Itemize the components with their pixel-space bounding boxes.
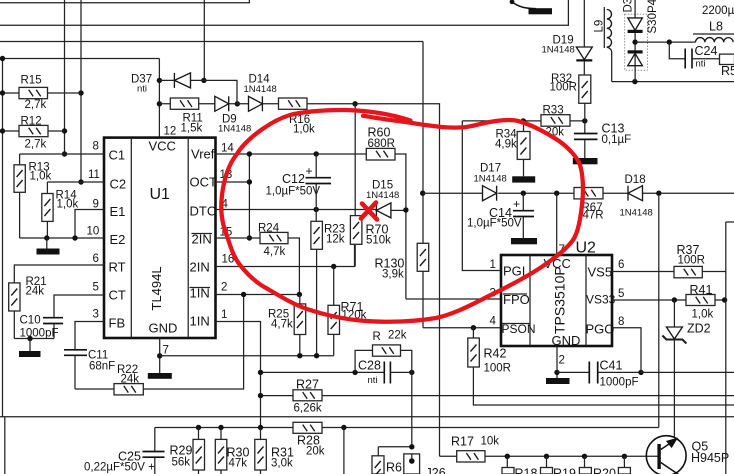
resistor R24	[258, 223, 299, 295]
resistor R21	[9, 276, 47, 339]
wire y=42.1	[635, 41, 694, 43]
svg-text:22k: 22k	[388, 330, 407, 342]
svg-text:4,9k: 4,9k	[495, 139, 517, 151]
svg-text:510k: 510k	[366, 235, 391, 247]
wire Vref row y=154	[216, 153, 367, 155]
ground U2 pin2	[546, 378, 570, 384]
resistor R6	[372, 456, 402, 474]
svg-text:R24: R24	[258, 223, 280, 235]
wire x=249.4 Vref to pin15	[248, 154, 250, 238]
svg-text:GND: GND	[149, 321, 178, 336]
wire VS5 row	[612, 271, 726, 273]
wire pin15 row y=238	[216, 237, 261, 239]
svg-text:R20: R20	[593, 467, 616, 474]
svg-text:20k: 20k	[306, 446, 325, 458]
svg-text:R29: R29	[170, 444, 193, 458]
svg-text:C41: C41	[600, 359, 623, 373]
resistor R31	[255, 428, 294, 474]
inductor L9	[594, 7, 612, 82]
svg-text:1000pF: 1000pF	[600, 377, 639, 389]
zener ZD2	[662, 300, 710, 437]
svg-text:1,0k: 1,0k	[293, 124, 315, 136]
wire D37 row y=80.4	[159, 80, 237, 103]
svg-text:+: +	[513, 197, 520, 211]
svg-text:C2: C2	[110, 177, 127, 192]
svg-text:1N4148: 1N4148	[620, 208, 653, 219]
transistor Q5	[646, 436, 729, 474]
svg-text:RT: RT	[109, 260, 126, 275]
wire y=58.5	[0, 58, 159, 60]
wire bus y=395.6	[261, 395, 734, 397]
svg-text:10k: 10k	[481, 436, 500, 448]
svg-text:8: 8	[93, 141, 99, 153]
svg-text:D3: D3	[623, 0, 635, 13]
svg-text:1000pF: 1000pF	[20, 328, 59, 340]
svg-text:PGO: PGO	[586, 322, 615, 337]
svg-text:4: 4	[490, 316, 497, 328]
svg-text:0,22µF*50V +: 0,22µF*50V +	[84, 462, 155, 474]
wire PSON row y=327.7	[423, 327, 501, 329]
svg-text:U1: U1	[150, 186, 171, 203]
svg-text:8: 8	[618, 316, 624, 328]
wire U2 pin7	[556, 193, 558, 255]
diode D9	[215, 96, 251, 134]
svg-text:0,1µF: 0,1µF	[602, 134, 632, 146]
wire pin2 row y=294.5	[216, 294, 300, 296]
svg-text:100R: 100R	[484, 363, 512, 375]
red annotation loop	[221, 110, 583, 322]
wire rail x=159.4 pin12	[158, 59, 160, 138]
svg-text:100R: 100R	[550, 82, 578, 94]
red X over D15	[361, 203, 377, 220]
svg-text:3,9k: 3,9k	[382, 269, 404, 281]
svg-text:VS5: VS5	[588, 265, 613, 280]
wire PGO	[612, 328, 641, 373]
svg-text:47k: 47k	[229, 458, 248, 470]
wire bus y=416.8	[0, 416, 734, 418]
svg-text:1,0k: 1,0k	[57, 199, 79, 211]
svg-text:U2: U2	[576, 240, 597, 257]
svg-text:1N4148: 1N4148	[218, 124, 251, 135]
wire left bottom x=4.8	[4, 417, 6, 474]
U1 TL494L body	[104, 138, 217, 338]
svg-text:3,0k: 3,0k	[271, 458, 293, 470]
svg-text:R41: R41	[690, 283, 713, 297]
svg-text:1N4148: 1N4148	[244, 84, 277, 95]
svg-text:1N4148: 1N4148	[542, 45, 575, 56]
resistor R60	[366, 126, 406, 300]
svg-text:24k: 24k	[121, 374, 140, 386]
svg-text:1,0µF*50V: 1,0µF*50V	[266, 186, 321, 198]
svg-text:4,7k: 4,7k	[264, 246, 286, 258]
svg-text:4,7k: 4,7k	[271, 319, 293, 331]
svg-text:R27: R27	[296, 378, 319, 392]
diode D37	[131, 73, 191, 95]
svg-text:1N4148: 1N4148	[474, 174, 507, 185]
svg-text:C24: C24	[695, 44, 718, 58]
resistor R32	[550, 73, 591, 121]
U2 TPS3510P body	[501, 240, 616, 349]
resistor R25	[268, 295, 306, 356]
svg-text:R15: R15	[21, 75, 42, 87]
svg-text:ZD2: ZD2	[687, 322, 711, 336]
diode D15	[366, 180, 409, 218]
ground pin7	[148, 373, 172, 379]
resistor R34	[495, 121, 535, 183]
wire FPO row y=298	[406, 298, 501, 300]
svg-text:R17: R17	[451, 435, 474, 449]
svg-text:1,0k: 1,0k	[30, 171, 52, 183]
svg-text:H945P: H945P	[691, 451, 729, 465]
svg-text:E2: E2	[110, 232, 126, 247]
ground C10	[29, 339, 31, 352]
wire R6 row y=446.8	[378, 447, 412, 456]
wire E1 row	[75, 210, 104, 239]
wire y=193.2 row	[423, 192, 734, 194]
svg-text:DTC: DTC	[190, 204, 217, 219]
pin numbers U1	[87, 126, 235, 357]
resistor R11	[170, 98, 202, 135]
svg-text:10: 10	[87, 226, 100, 238]
capacitor C41	[557, 359, 644, 389]
svg-text:6: 6	[93, 253, 99, 265]
svg-text:5: 5	[618, 288, 624, 300]
wire OCT row	[216, 181, 250, 183]
resistor R33	[541, 105, 570, 139]
svg-text:GND: GND	[552, 333, 581, 348]
wire top bus y=2.7	[0, 0, 249, 3]
resistor R21b	[618, 456, 630, 474]
diode D19	[542, 0, 593, 75]
wire rail x=64.5	[64, 0, 66, 154]
svg-text:11: 11	[88, 169, 100, 181]
svg-text:R18: R18	[515, 467, 538, 474]
svg-text:14: 14	[221, 143, 234, 155]
svg-text:PGI: PGI	[503, 264, 525, 279]
wire left rail x=2.5	[2, 59, 4, 417]
svg-text:R12: R12	[21, 116, 42, 128]
svg-text:L8: L8	[709, 20, 723, 34]
wire VS33 row	[612, 299, 726, 301]
resistor R20	[579, 456, 616, 474]
svg-text:1,0k: 1,0k	[692, 309, 714, 321]
resistor R41	[686, 283, 715, 321]
svg-text:C12: C12	[282, 172, 305, 186]
svg-text:R42: R42	[484, 347, 507, 361]
svg-text:C10: C10	[20, 315, 41, 327]
svg-text:1,0µF*50V: 1,0µF*50V	[467, 218, 522, 230]
pin numbers U2	[490, 244, 625, 367]
svg-text:VS33: VS33	[586, 293, 616, 307]
resistor R70	[350, 104, 391, 267]
svg-text:5: 5	[93, 282, 99, 294]
svg-text:TL494L: TL494L	[149, 266, 164, 310]
resistor R16	[279, 98, 315, 136]
wire bus y=41.5	[0, 41, 423, 43]
wire C28 row y=372.4	[261, 371, 412, 373]
resistor R29	[170, 428, 205, 474]
svg-text:2200µF: 2200µF	[702, 5, 734, 17]
svg-text:1: 1	[221, 309, 227, 321]
svg-text:56k: 56k	[172, 457, 191, 469]
svg-text:FB: FB	[109, 316, 126, 331]
capacitor C12	[266, 154, 332, 210]
svg-text:3: 3	[93, 309, 99, 321]
resistor R23	[311, 210, 345, 356]
resistor R42	[468, 328, 734, 405]
wire R11 row y=103.8	[159, 104, 439, 457]
svg-text:24k: 24k	[26, 286, 45, 298]
capacitor C14	[467, 193, 537, 244]
svg-text:9: 9	[93, 199, 99, 211]
ground E2	[46, 238, 48, 249]
svg-text:OCT: OCT	[190, 175, 218, 190]
wire pin1 row	[216, 322, 261, 428]
transformer stub top	[510, 0, 552, 14]
resistor R 22k	[355, 330, 412, 447]
resistor R27	[293, 378, 322, 415]
diode D14	[244, 74, 277, 112]
wire DTC row y=209.5	[216, 209, 377, 211]
svg-text:680R: 680R	[368, 138, 396, 150]
inductor L8	[693, 20, 734, 43]
svg-text:2: 2	[559, 355, 565, 367]
resistor R37	[674, 243, 705, 278]
node E2	[44, 235, 49, 240]
svg-text:+: +	[306, 164, 313, 178]
svg-text:R33: R33	[543, 105, 564, 117]
diode D18	[620, 174, 653, 219]
svg-text:2IN: 2IN	[190, 260, 210, 275]
resistor R30	[215, 428, 249, 474]
wire R22 row y=389	[75, 295, 244, 390]
svg-text:nti: nti	[137, 84, 147, 95]
svg-text:100R: 100R	[678, 255, 706, 267]
wire y=81.6 row	[612, 81, 734, 83]
svg-text:R: R	[373, 331, 381, 343]
svg-text:R5: R5	[721, 64, 734, 78]
wire CT row	[54, 295, 104, 317]
resistor R67	[574, 188, 604, 222]
svg-text:47R: 47R	[583, 210, 604, 222]
svg-text:Vref: Vref	[191, 147, 215, 162]
wire U2 pin2	[556, 346, 558, 378]
svg-text:1: 1	[490, 259, 496, 271]
svg-text:12k: 12k	[326, 234, 345, 246]
capacitor C11	[64, 350, 115, 390]
svg-text:R19: R19	[553, 467, 576, 474]
svg-text:L9: L9	[594, 20, 606, 33]
svg-text:J26: J26	[426, 466, 446, 474]
wire rail x=81	[80, 0, 82, 182]
wire rail x=204.3	[203, 0, 205, 80]
resistor R28	[293, 422, 325, 457]
svg-text:2,7k: 2,7k	[25, 99, 47, 111]
svg-text:D18: D18	[625, 174, 646, 186]
resistor R12	[3, 116, 65, 151]
diode D17	[474, 163, 507, 201]
svg-text:68nF: 68nF	[89, 361, 115, 373]
wire PGI drop x=462.3	[462, 121, 501, 271]
resistor R130	[375, 42, 429, 328]
schottky D3x pair	[623, 0, 660, 82]
svg-text:S30P45: S30P45	[647, 0, 659, 34]
wire RT row	[14, 265, 104, 283]
svg-text:2: 2	[221, 282, 227, 294]
capacitor C24	[669, 42, 719, 69]
wire pin16 row y=266.5	[216, 244, 355, 266]
svg-text:2,7k: 2,7k	[25, 139, 47, 151]
svg-text:VCC: VCC	[149, 139, 176, 154]
svg-text:E1: E1	[110, 204, 126, 219]
svg-text:CT: CT	[109, 288, 126, 303]
svg-text:6: 6	[618, 259, 624, 271]
svg-text:1IN: 1IN	[190, 314, 210, 329]
wire C2 row y=182	[47, 181, 104, 183]
wire y=372.4 to right	[641, 371, 734, 373]
svg-text:1N4148: 1N4148	[366, 190, 399, 201]
svg-text:12: 12	[164, 126, 177, 138]
svg-text:TPS3510P: TPS3510P	[552, 266, 568, 334]
svg-text:C1: C1	[109, 148, 126, 163]
node D37 anode	[157, 78, 162, 83]
wire y=355.6 row	[160, 355, 334, 357]
connector J26	[404, 454, 446, 474]
resistor R17	[440, 435, 658, 463]
capacitor C25	[84, 428, 165, 474]
wire vertical x=658.8	[658, 193, 660, 427]
wire C1 row y=154	[20, 153, 104, 155]
wire C10 gnd row	[14, 338, 54, 340]
resistor R15	[3, 75, 82, 112]
resistor R13	[14, 154, 51, 238]
svg-text:1,5k: 1,5k	[181, 123, 203, 135]
svg-text:6,26k: 6,26k	[294, 403, 322, 415]
wire E2 row	[20, 237, 104, 239]
svg-text:C28: C28	[358, 359, 381, 373]
svg-text:nti: nti	[368, 375, 378, 386]
resistor R5x	[720, 54, 734, 78]
svg-text:7: 7	[163, 345, 169, 357]
resistor R22	[114, 364, 143, 395]
wire FB row	[75, 322, 104, 350]
wire right box edge x=725.8	[726, 222, 734, 474]
svg-text:nti: nti	[696, 59, 706, 70]
wire row y=427.5	[155, 427, 659, 429]
resistor R18	[502, 456, 537, 474]
capacitor C28	[358, 359, 390, 387]
capacitor C13	[573, 121, 631, 164]
resistor R19	[541, 456, 576, 474]
resistor R71	[328, 267, 367, 356]
capacitor C10	[20, 315, 64, 340]
wire bus y=25.3	[0, 0, 568, 25]
svg-text:R6: R6	[386, 461, 402, 474]
wire y=120.9 row	[462, 120, 585, 122]
resistor R14	[42, 182, 79, 238]
wire pin7 GND	[159, 338, 161, 373]
